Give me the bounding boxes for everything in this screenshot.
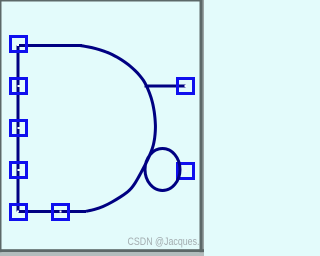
pin dot S6 (60, 211, 62, 213)
wire: bottom horizontal to gate (18, 210, 86, 213)
inversion bubble (145, 149, 180, 191)
port square S2 (11, 79, 27, 94)
border: left (0, 0, 2, 256)
border: bottom dark (0, 249, 204, 252)
border: top (0, 0, 204, 2)
pin dot S2 (18, 85, 20, 87)
pin dot S8 (185, 170, 187, 172)
svg-text:CSDN @Jacques.: CSDN @Jacques. (128, 236, 200, 248)
port square S8 bubble (178, 164, 194, 179)
wire: top horizontal from pin I1 (18, 44, 82, 47)
port square S6 bottom (53, 205, 69, 220)
port square S7 output (178, 79, 194, 94)
port square S3 (11, 121, 27, 136)
border: bottom light (0, 252, 204, 256)
port square S4 (11, 163, 27, 178)
port square S5 (11, 205, 27, 220)
border: right light (203, 0, 205, 256)
gate body arc (D shape) (80, 46, 155, 212)
wire: output to pin O1 (145, 85, 186, 88)
pin dot S5 (17, 211, 19, 213)
pin dot S7 (185, 85, 187, 87)
port square S1 (11, 37, 27, 52)
border: right dark (200, 0, 203, 256)
pin dot S4 (18, 169, 20, 171)
wire: left vertical bus I1..I5 (17, 46, 20, 212)
pin dot S1 (17, 44, 19, 46)
pin dot S3 (18, 127, 20, 129)
